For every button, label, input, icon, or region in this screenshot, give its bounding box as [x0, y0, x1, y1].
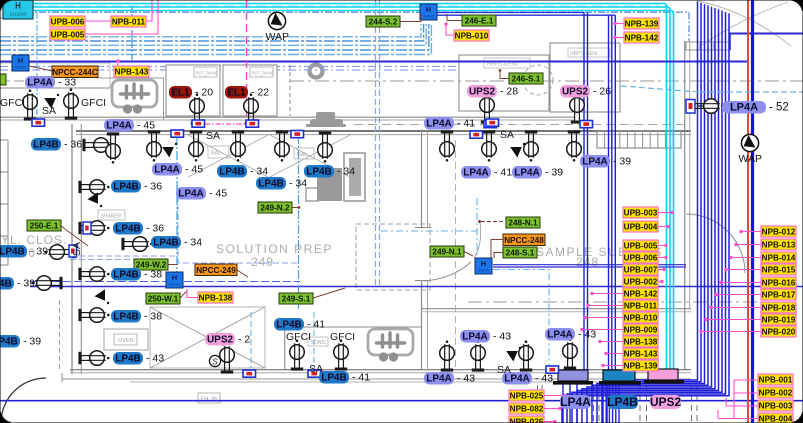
svg-text:- 2: - 2: [238, 334, 250, 346]
svg-text:LP4B: LP4B: [276, 320, 302, 331]
lead right col 2: [736, 244, 761, 246]
floor box corridor a: [171, 130, 184, 137]
floor box corridor c: [580, 121, 593, 128]
lead 248-S.1: [494, 253, 503, 259]
floor box UPS28: [486, 119, 499, 126]
panel label NPB-025 (bottom): [509, 390, 544, 401]
panel label NPB-020 (right col): [761, 326, 796, 337]
svg-text:SA: SA: [309, 363, 323, 375]
grid dashed pair b: [593, 385, 595, 423]
bus main blue lower: [0, 400, 803, 402]
switch label 248-S.1: [503, 247, 537, 258]
door dashed EL room: [289, 65, 291, 116]
wall GFCI room: [284, 327, 286, 370]
switch label edge stub: [0, 74, 6, 85]
lead NPB-139 top: [616, 23, 624, 25]
svg-text:- 39: - 39: [17, 278, 35, 290]
svg-text:- 43: - 43: [457, 373, 475, 385]
svg-text:EL1: EL1: [227, 88, 246, 99]
svg-text:NPB-139: NPB-139: [624, 362, 658, 371]
cabinet row left wall: [7, 140, 9, 265]
receptacle GFCI b2: [334, 339, 349, 370]
lead right col 8: [706, 319, 761, 321]
wall top-right ledge: [686, 42, 730, 50]
wall right vertical: [684, 41, 686, 369]
svg-text:NPB-139: NPB-139: [625, 20, 659, 29]
svg-text:NPB-016: NPB-016: [762, 279, 796, 288]
svg-text:12x12x6: 12x12x6: [9, 12, 27, 17]
wall bottom of rooms: [70, 369, 691, 371]
svg-text:LP4A: LP4A: [106, 121, 132, 132]
circuit tag LP4B - 36: [31, 138, 61, 151]
bus dashed middle: [30, 281, 300, 283]
wire feeder top b: [437, 14, 615, 16]
ref box 2: [250, 67, 273, 77]
svg-text:UPB-006: UPB-006: [624, 254, 658, 263]
lead 246-S.1: [500, 71, 509, 79]
floor box pink link: [205, 123, 245, 125]
wall box closet: [69, 245, 77, 257]
svg-text:NPB-010: NPB-010: [624, 314, 658, 323]
svg-text:LP4A: LP4A: [462, 332, 488, 343]
wall lower corridor: [62, 378, 691, 380]
ring column: [310, 65, 323, 78]
wire magenta riser: [246, 0, 248, 124]
switch label 248-N.1: [506, 217, 540, 228]
svg-text:NPB-013: NPB-013: [762, 241, 796, 250]
switch label 249-W.2: [134, 259, 168, 270]
counter X upper: [188, 135, 268, 177]
svg-text:UPS2: UPS2: [562, 87, 589, 98]
svg-text:NPB-020: NPB-020: [762, 328, 796, 337]
panel label UPB-005 (center col y240): [623, 240, 658, 251]
lead right col 1: [741, 231, 761, 233]
receptacle wall a: [78, 180, 109, 195]
switch label 250-E.1: [27, 220, 61, 231]
svg-text:UPS2: UPS2: [469, 87, 496, 98]
circuit tag LP4A - 41: [461, 166, 491, 179]
wire blue dashed top: [0, 12, 689, 41]
svg-text:SHAKER: SHAKER: [101, 214, 122, 220]
svg-text:UPB-005: UPB-005: [51, 31, 85, 40]
svg-text:S: S: [212, 358, 218, 367]
svg-text:NPB-143: NPB-143: [115, 68, 149, 77]
svg-text:NPB-002: NPB-002: [759, 389, 793, 398]
panel label NPB-019 (right col): [761, 314, 796, 325]
lead NPB-142 top: [616, 37, 624, 39]
svg-text:SA: SA: [497, 364, 511, 376]
panel label NPB-014 (right col): [761, 252, 796, 263]
svg-text:LP4B: LP4B: [33, 140, 59, 151]
svg-text:6x6x6: 6x6x6: [15, 65, 26, 70]
receptacle row1 a: [82, 138, 113, 153]
circuit tag UPS2 - 26: [560, 85, 590, 98]
lead center col 12: [606, 353, 623, 355]
sonic box: [308, 337, 328, 346]
receptacle row3 b: [471, 340, 486, 371]
floor box bottom b: [308, 370, 321, 377]
svg-text:NPB-025: NPB-025: [510, 392, 544, 401]
svg-text:NPB-142: NPB-142: [624, 290, 658, 299]
svg-text:GFCI: GFCI: [286, 331, 311, 343]
equipment oven: [104, 329, 148, 350]
lead center col 8: [588, 305, 623, 307]
wire conduit band 4: [0, 24, 429, 50]
svg-text:LP4B: LP4B: [0, 247, 25, 258]
centerline stub left: [0, 80, 26, 82]
svg-text:LP4A: LP4A: [178, 189, 204, 200]
svg-text:LP4B: LP4B: [153, 238, 179, 249]
svg-text:- 43: - 43: [146, 353, 164, 365]
floor box bottom a: [243, 370, 256, 377]
receptacle UPS2-2: [220, 342, 235, 373]
dashed work area: [356, 224, 430, 290]
circuit tag LP4A: [560, 395, 591, 409]
lead right col 5: [721, 282, 761, 284]
svg-text:246-E.1: 246-E.1: [465, 17, 494, 26]
svg-text:LP4B: LP4B: [113, 182, 139, 193]
panel stub box LP4A-52: [686, 100, 695, 114]
lead 244-S.2: [400, 14, 421, 22]
svg-text:NPB-143: NPB-143: [624, 350, 658, 359]
circuit tag LP4A - 39: [580, 155, 610, 168]
lead center col 10: [582, 329, 623, 331]
svg-text:- 28: - 28: [500, 86, 518, 98]
svg-text:- 34: - 34: [289, 178, 307, 190]
wire dashed left room: [70, 255, 177, 257]
panel LP4A (periwinkle): [553, 381, 593, 385]
wire cyan dashed to LP4A-52: [621, 86, 700, 92]
svg-text:- 41: - 41: [494, 167, 512, 179]
svg-text:LP4A: LP4A: [560, 395, 591, 409]
svg-text:WAP: WAP: [739, 153, 763, 165]
svg-text:- 34: - 34: [337, 166, 355, 178]
svg-text:NPB-019: NPB-019: [762, 316, 796, 325]
switch label 246-E.1: [462, 15, 496, 26]
receptacle wall f: [78, 351, 109, 366]
panel label NPB-001 (bottom right): [758, 374, 793, 385]
bundle below teal panel: [602, 384, 604, 423]
lead center col 11: [600, 341, 623, 343]
wire cyan trunk 1: [0, 4, 667, 371]
circuit tag LP4B - 41: [319, 371, 349, 384]
receptacle wall d: [78, 267, 109, 282]
circuit tag LP4A - 45: [104, 119, 134, 132]
receptacle closet b: [31, 276, 62, 291]
svg-text:248-N.1: 248-N.1: [508, 219, 538, 228]
svg-text:LP4A: LP4A: [730, 102, 758, 114]
wire periwinkle pair vertical: [375, 0, 377, 288]
circuit tag UPS2 - 28: [467, 85, 497, 98]
cabinet counter top-left: [0, 63, 110, 88]
bus blue top-right: [729, 33, 803, 35]
lead 250-W.1: [180, 291, 187, 298]
wire H4 dashed west: [381, 230, 477, 232]
svg-text:H: H: [15, 2, 21, 11]
lead 248-N.1: [481, 221, 503, 223]
svg-text:6x6x6: 6x6x6: [169, 282, 180, 287]
panel label NPB-011 (center col y300): [623, 300, 658, 311]
svg-text:LP4A: LP4A: [463, 168, 489, 179]
circuit tag EL1 - 20: [169, 86, 192, 99]
wire cyan trunk 3: [0, 11, 674, 371]
wire cyan trunk 2: [0, 7, 670, 370]
door swing sample room: [424, 262, 471, 281]
grid dashed x455: [455, 140, 457, 368]
circuit tag LP4B - 41: [274, 318, 304, 331]
triangle wall a: [88, 192, 103, 207]
wire dashed solution rect: [178, 196, 298, 263]
panel label NPB-138 (center col y336): [623, 336, 658, 347]
shaker box: [98, 210, 125, 220]
svg-text:NPB-026: NPB-026: [510, 418, 544, 423]
panel label UPB-003 (center col y207): [623, 207, 658, 218]
centerline lower: [468, 301, 757, 303]
svg-text:LP4B: LP4B: [115, 354, 141, 365]
circuit tag LP4B - 38: [111, 310, 141, 323]
svg-text:REF_36x36: REF_36x36: [196, 71, 219, 76]
svg-text:NPB-138: NPB-138: [624, 338, 658, 347]
lead 249-W.2: [168, 264, 178, 266]
svg-text:NPCC-249: NPCC-249: [196, 266, 236, 275]
svg-text:NPB-017: NPB-017: [762, 291, 796, 300]
svg-text:FH. 96: FH. 96: [201, 397, 218, 403]
lead right col 4: [726, 269, 761, 271]
lead center col 4: [658, 257, 666, 259]
wire dashed drop x314: [313, 312, 315, 368]
switch label 244-S.2: [366, 16, 400, 27]
junction box H1: [12, 55, 29, 71]
switch label 250-W.1: [146, 293, 180, 304]
panel label NPB-138: [198, 292, 233, 303]
triangle row2: [510, 143, 525, 158]
equipment copier: [306, 112, 346, 127]
svg-text:NPB-014: NPB-014: [762, 254, 796, 263]
bundle below periwinkle panel: [562, 384, 564, 423]
riser triple B: [608, 15, 610, 370]
svg-text:UPS2: UPS2: [650, 395, 682, 409]
wire dashed drop x298: [298, 135, 300, 311]
room HBPS-GEN right: [550, 43, 620, 112]
door swing top-right a: [697, 1, 791, 46]
wall sample room left pilaster: [421, 131, 423, 228]
wire dashed drop x251: [250, 312, 252, 368]
wall sample room bottom: [421, 308, 691, 310]
circuit tag LP4A - 45: [152, 163, 182, 176]
receptacle row1 c: [189, 130, 204, 161]
lead center col 2: [658, 226, 668, 228]
svg-text:- 41: - 41: [457, 118, 475, 130]
panel label UPB-005: [50, 29, 85, 40]
svg-text:249-N.2: 249-N.2: [260, 204, 290, 213]
receptacle EL1-20: [190, 93, 205, 124]
lead center col 7: [592, 293, 623, 295]
centerline upper: [290, 80, 803, 82]
svg-text:NPB-003: NPB-003: [759, 402, 793, 411]
room EL1-20: [166, 65, 220, 116]
equipment shelving: [344, 153, 365, 201]
svg-text:NPB-011: NPB-011: [112, 18, 146, 27]
svg-text:SOLUTION PREP: SOLUTION PREP: [216, 242, 333, 256]
switch label 249-N.2: [258, 202, 292, 213]
receptacle UPS2-28: [480, 92, 495, 123]
lead UPB-005: [85, 0, 158, 34]
circuit tag LP4A - 52: [722, 101, 766, 114]
controller label NPCC-248: [503, 234, 545, 246]
door swing bottom-left: [1, 378, 46, 422]
lead right col 9: [701, 331, 761, 333]
svg-text:- 26: - 26: [593, 86, 611, 98]
switch label 249-N.1: [430, 246, 464, 257]
panel label NPB-002 (bottom right): [758, 387, 793, 398]
equipment machine U-A: [112, 80, 157, 114]
svg-text:- 41: - 41: [307, 319, 325, 331]
wire H4 dashed east: [493, 270, 549, 369]
receptacle GFCI 1: [23, 89, 38, 120]
svg-text:LP4A: LP4A: [154, 165, 180, 176]
lead center col 9: [585, 317, 623, 319]
wire periwinkle dashed b: [0, 70, 500, 76]
svg-text:LP4A: LP4A: [426, 374, 452, 385]
switch S circle: [209, 355, 220, 366]
svg-text:LP4B: LP4B: [258, 179, 284, 190]
svg-text:NPB-018: NPB-018: [762, 304, 796, 313]
WAP access point 1: [268, 12, 285, 29]
receptacle row2 c: [524, 130, 539, 161]
circuit tag UPS2 - 2: [205, 333, 235, 346]
riser red: [747, 0, 749, 423]
svg-text:NPCC-244C: NPCC-244C: [52, 68, 98, 77]
wire H4 feeder double: [493, 264, 686, 266]
svg-text:SA: SA: [42, 105, 56, 117]
wire feeder top a: [437, 12, 584, 14]
svg-text:NPB-011: NPB-011: [624, 302, 658, 311]
bundle cascade risers: [607, 2, 698, 423]
svg-text:249-N.1: 249-N.1: [432, 248, 462, 257]
receptacle UPS2-26: [570, 92, 585, 123]
wire conduit band 2: [0, 24, 424, 41]
svg-text:LP4B: LP4B: [113, 270, 139, 281]
panel label UPB-007 (center col y264): [623, 264, 658, 275]
panel label UPB-004 (center col y221): [623, 221, 658, 232]
panel label NPB-142 (center col y288): [623, 288, 658, 299]
panel label NPB-015 (right col): [761, 264, 796, 275]
wire conduit band 1: [0, 24, 421, 37]
panel label NPB-139 (center col y360): [623, 360, 658, 371]
svg-text:NPB-001: NPB-001: [759, 376, 793, 385]
panel label NPB-142: [624, 32, 659, 43]
circuit tag LP4B - 39: [0, 277, 14, 290]
svg-text:OVEN: OVEN: [118, 338, 134, 344]
circuit tag LP4B - 43: [113, 352, 143, 365]
svg-text:- 38: - 38: [144, 269, 162, 281]
svg-text:LP4B: LP4B: [115, 224, 141, 235]
circuit tag LP4A - 43: [502, 372, 532, 385]
receptacle row1 b: [147, 130, 162, 161]
junction box H2: [420, 4, 437, 20]
receptacle closet a: [44, 245, 75, 260]
bus main blue upper: [0, 61, 748, 63]
wire cyan dashes top: [0, 4, 660, 6]
controller label NPCC-244C: [52, 66, 98, 78]
receptacle wall e: [78, 308, 109, 323]
svg-text:UPB-006: UPB-006: [51, 18, 85, 27]
svg-text:- 20: - 20: [195, 87, 213, 99]
triangle row3: [506, 347, 521, 362]
svg-text:SONIC: SONIC: [311, 340, 327, 346]
svg-text:LP4A: LP4A: [27, 78, 53, 89]
triangle wall b: [95, 289, 110, 304]
circuit tag LP4A - 39: [512, 166, 542, 179]
lead right col 7: [711, 307, 761, 309]
svg-text:LP4B: LP4B: [113, 312, 139, 323]
receptacle row1 a2: [106, 132, 121, 163]
receptacle row2 a: [440, 130, 455, 161]
svg-text:- 39: - 39: [30, 246, 48, 258]
svg-text:GFCI: GFCI: [81, 97, 106, 109]
lead right col 3: [731, 257, 761, 259]
svg-text:NPB-082: NPB-082: [510, 405, 544, 414]
bus main blue middle: [30, 286, 803, 288]
svg-text:NPB-138: NPB-138: [199, 294, 233, 303]
panel label UPB-002 (center col y276): [623, 276, 658, 287]
svg-text:UPB-004: UPB-004: [624, 223, 658, 232]
svg-text:NPB-004: NPB-004: [759, 415, 793, 423]
riser pair A: [583, 13, 585, 371]
lead 249-S.1: [313, 288, 345, 298]
receptacle row1 e: [275, 130, 290, 161]
svg-text:250-W.1: 250-W.1: [148, 295, 179, 304]
floor box corridor a2: [291, 131, 304, 138]
panel LP4B (teal): [599, 381, 641, 385]
panel UPS2 (pink): [644, 380, 684, 384]
grid dashed pair d: [691, 385, 693, 423]
lead NPCC-249: [237, 270, 248, 277]
receptacle EL1-22: [244, 93, 259, 124]
lead center col 5: [658, 269, 664, 271]
svg-text:BAL.: BAL.: [211, 151, 223, 157]
svg-text:- 33: - 33: [58, 77, 76, 89]
lead 249-N.1: [464, 252, 473, 257]
svg-text:NPB-009: NPB-009: [624, 326, 658, 335]
lead NPB-138 left: [187, 289, 198, 298]
svg-text:6x6x6: 6x6x6: [423, 14, 434, 19]
floor box EL1-22: [246, 120, 259, 127]
svg-text:LP4A: LP4A: [547, 330, 573, 341]
svg-text:6x6x6: 6x6x6: [478, 268, 489, 273]
junction box H3: [166, 272, 183, 288]
circuit tag LP4B - 38: [111, 268, 141, 281]
svg-text:LP4B: LP4B: [607, 395, 638, 409]
svg-text:- 36: - 36: [144, 181, 162, 193]
floor box corridor d: [470, 131, 483, 138]
cable tray section: [597, 131, 681, 148]
svg-text:NPB-010: NPB-010: [455, 32, 489, 41]
ref box 1: [194, 67, 217, 77]
receptacle wall b: [78, 221, 109, 236]
lead NPB-010: [446, 24, 454, 35]
lead NPB-026: [544, 421, 554, 423]
panel label NPB-012 (right col): [761, 226, 796, 237]
fh96 box: [198, 393, 220, 403]
panel label NPB-004 (bottom right): [758, 413, 793, 423]
svg-text:- 43: - 43: [493, 331, 511, 343]
svg-text:NPB-142: NPB-142: [625, 34, 659, 43]
circuit tag LP4B - 39: [0, 245, 27, 258]
hbps-gen2 tag: [484, 58, 530, 68]
dashed pad circle: [523, 65, 553, 95]
floor box bottom c: [546, 366, 559, 373]
